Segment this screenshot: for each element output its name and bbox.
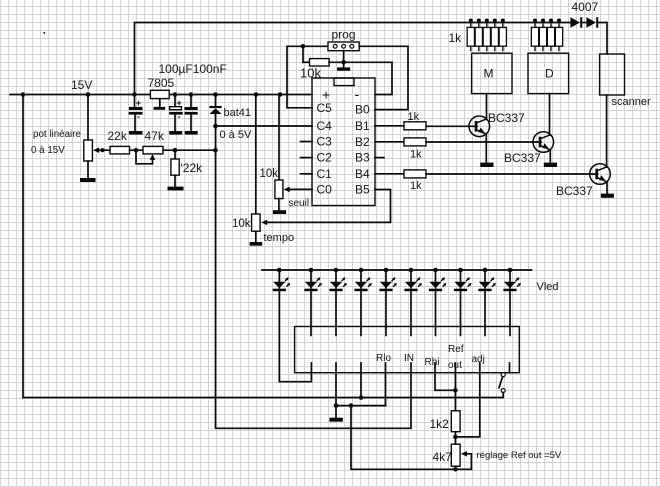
node wiper junction: [100, 148, 104, 152]
svg-text:0 à 5V: 0 à 5V: [220, 129, 252, 141]
IC notch: [334, 78, 354, 86]
LED 10: [503, 268, 521, 292]
wire prog middle pin: [343, 51, 345, 68]
module D: [528, 53, 569, 93]
wire LED3 pin: [335, 291, 337, 335]
svg-text:10k: 10k: [232, 218, 251, 230]
pin Rhi (to Ref out node): [435, 363, 455, 390]
svg-text:Rlo: Rlo: [376, 353, 391, 364]
potentiometer 10k seuil: [275, 180, 290, 199]
wire C5 to prog: [287, 46, 328, 108]
node pot linéaire top: [86, 92, 91, 97]
svg-text:B2: B2: [355, 135, 370, 149]
wire between diodes: [582, 22, 586, 24]
wire 47k to signal node: [163, 149, 216, 151]
wire ground bus: [336, 405, 386, 407]
svg-text:C1: C1: [317, 167, 333, 181]
pin stub C1: [301, 173, 313, 175]
wire minus pin to ground node: [375, 62, 392, 94]
svg-text:C0: C0: [317, 183, 333, 197]
transistor Q3 BC337: [590, 164, 611, 185]
pin V+ (to 15V feed): [360, 363, 362, 398]
pin V- (to ground): [335, 363, 337, 406]
wire seuil bottom lead: [278, 199, 280, 211]
svg-text:'22k: '22k: [181, 161, 204, 175]
wire LED4 pin: [360, 291, 362, 335]
svg-text:10k: 10k: [260, 168, 279, 180]
svg-text:C2: C2: [317, 151, 333, 165]
ground C1: [129, 131, 143, 135]
wire scanner to Q3 collector: [606, 95, 608, 167]
IC U1: [312, 78, 375, 206]
ground Q3: [601, 194, 614, 198]
svg-text:scanner: scanner: [612, 96, 651, 108]
LED 2: [304, 268, 322, 292]
svg-text:B5: B5: [355, 183, 370, 197]
wire 10k drop: [302, 46, 304, 62]
ground tempo: [250, 242, 263, 246]
pin stub C2: [301, 157, 313, 159]
wire 15V rail: [10, 94, 312, 96]
LED 8: [454, 268, 472, 292]
transistor Q1 BC337: [469, 116, 490, 137]
svg-text:-: -: [178, 112, 181, 122]
ground pot linéaire: [80, 178, 96, 182]
wire LED5 pin: [385, 291, 387, 335]
svg-text:réglage Ref out =5V: réglage Ref out =5V: [477, 450, 562, 461]
wire LED1 to pin 1: [279, 291, 311, 382]
node 22k vertical tap: [173, 148, 178, 153]
LED 1: [273, 268, 291, 292]
svg-text:B4: B4: [355, 167, 370, 181]
svg-text:1k: 1k: [410, 180, 422, 192]
resistor 22k: [110, 146, 130, 154]
node rail / left drop junction: [21, 92, 26, 97]
svg-text:4k7: 4k7: [433, 450, 453, 464]
node C3: [189, 92, 194, 97]
svg-text:0 à 15V: 0 à 15V: [31, 145, 65, 156]
resistor 1k (B2): [375, 138, 541, 146]
potentiometer 47k: [136, 146, 163, 163]
svg-text:pot linéaire: pot linéaire: [33, 129, 81, 140]
pin stub C3: [301, 141, 313, 143]
svg-text:prog: prog: [332, 28, 356, 42]
svg-text:B3: B3: [355, 151, 370, 165]
node C2: [173, 92, 178, 97]
wire LED supply top rail: [135, 23, 571, 95]
wire Q2 emitter: [549, 150, 551, 163]
pin Rlo: [385, 363, 387, 406]
potentiometer 4k7: [451, 444, 471, 469]
node seuil supply: [278, 92, 283, 97]
wire M to Q1 collector: [486, 94, 488, 120]
svg-text:Ref: Ref: [448, 344, 464, 355]
wire signal trunk (bat41 down, to LM3914 IN pin): [216, 114, 412, 428]
resistor 1k2: [451, 411, 460, 432]
node top-wire riser / C1: [132, 92, 137, 97]
ground prog: [337, 67, 350, 70]
wire C4 sense line: [216, 125, 313, 127]
capacitor C2 100µF: [169, 95, 183, 132]
svg-text:IN: IN: [404, 353, 414, 364]
regulator 7805: [150, 90, 169, 110]
pin Ref out: [454, 363, 456, 411]
svg-text:+: +: [136, 98, 141, 108]
diode D2 4007: [586, 17, 598, 28]
node 0 à 5V: [213, 124, 218, 129]
module scanner: [600, 54, 625, 95]
svg-text:B1: B1: [355, 119, 370, 133]
svg-text:C4: C4: [317, 119, 333, 133]
node Rhi/RefOut junction: [453, 388, 458, 393]
potentiometer 10k tempo: [252, 214, 268, 231]
module LM3914: [295, 327, 520, 373]
svg-text:1k: 1k: [410, 149, 422, 161]
svg-text:4007: 4007: [572, 0, 599, 14]
wire pot bottom lead: [87, 161, 89, 178]
LED 5: [379, 268, 397, 292]
wire LED9 pin: [484, 291, 486, 335]
capacitor C1 100µF: [129, 95, 143, 132]
svg-text:Rhi: Rhi: [425, 357, 440, 368]
svg-text:BC337: BC337: [556, 184, 593, 198]
node V+ junction on feed: [359, 395, 364, 400]
wire seuil wiper to C0: [289, 188, 312, 190]
wire Q1 emitter: [485, 134, 487, 162]
svg-text:Vled: Vled: [537, 281, 559, 293]
wire Q3 emitter: [606, 182, 608, 194]
wire LED7 pin: [435, 291, 437, 335]
wire 22k to 47k: [130, 149, 144, 151]
LED 4: [354, 268, 372, 292]
ground C3: [185, 131, 198, 135]
svg-text:15V: 15V: [71, 78, 92, 92]
svg-text:47k: 47k: [145, 129, 165, 143]
svg-text:7805: 7805: [148, 76, 175, 90]
svg-text:BC337: BC337: [488, 111, 525, 125]
svg-text:C3: C3: [317, 135, 333, 149]
node 4k7 bottom junction: [453, 467, 458, 472]
ground 22k vertical: [168, 187, 184, 191]
svg-text:1k2: 1k2: [430, 417, 450, 431]
LED 3: [329, 268, 347, 292]
svg-text:-: -: [137, 112, 140, 122]
wire LED10 pin: [509, 291, 511, 335]
resistor 10k prog: [303, 59, 392, 66]
svg-text:bat41: bat41: [224, 107, 252, 119]
wire 1k2 to 4k7: [454, 432, 456, 445]
wire bottom +15V feed: [23, 397, 503, 399]
LED 7: [429, 268, 447, 292]
pin stub B3: [375, 157, 384, 159]
wire Vled: [262, 269, 531, 271]
wire tempo supply drop: [255, 95, 257, 215]
potentiometer pot linéaire: [84, 140, 99, 161]
wire tempo bottom lead: [255, 231, 257, 242]
wire seuil supply drop: [278, 95, 280, 181]
ground C2: [169, 131, 182, 135]
pin mode stub: [509, 363, 511, 373]
svg-text:100µF100nF: 100µF100nF: [159, 62, 227, 76]
resistor network 1k group M (5 resistors): [467, 19, 506, 52]
wire diodes to scanner: [598, 23, 607, 55]
wire bus to bottom return: [351, 406, 471, 470]
switch mode: [499, 373, 505, 398]
svg-text:22k: 22k: [108, 129, 128, 143]
wire pot linéaire top lead: [87, 95, 89, 141]
svg-text:D: D: [545, 67, 554, 81]
node bat41 top: [213, 92, 218, 97]
ground LM3914: [329, 418, 342, 422]
diode D1 4007: [570, 17, 582, 28]
svg-text:+: +: [177, 98, 182, 108]
wire prog right pin to B0: [359, 46, 408, 109]
pin adj: [455, 363, 479, 437]
transistor Q2 BC337: [533, 132, 554, 153]
connector prog: [328, 42, 359, 51]
wire LED8 pin: [460, 291, 462, 335]
resistor 1k (B1): [375, 122, 477, 130]
ground Q1: [480, 163, 493, 167]
svg-text:1k: 1k: [408, 111, 420, 123]
svg-text:adj: adj: [472, 354, 485, 365]
stray mark: [44, 32, 46, 34]
node prog/10k junction: [301, 44, 306, 49]
wire wiper to 22k: [99, 149, 111, 151]
svg-text:-: -: [355, 86, 360, 102]
wire left drop (15V to bottom feed): [22, 95, 24, 398]
node ground bus left: [334, 403, 339, 408]
LED 6: [404, 268, 422, 292]
resistor network 1k group D (4 resistors): [531, 19, 562, 52]
svg-text:BC337: BC337: [504, 151, 541, 165]
resistor 22k vertical: [171, 150, 179, 186]
svg-text:C5: C5: [317, 101, 333, 115]
svg-text:tempo: tempo: [264, 232, 295, 244]
svg-text:1k: 1k: [449, 31, 463, 45]
node 47k wiper return: [134, 148, 139, 153]
node 1k2/4k7/adj junction: [453, 435, 458, 440]
wire V- to ground: [335, 406, 337, 418]
wire LED6 pin: [410, 291, 412, 335]
svg-text:seuil: seuil: [289, 198, 310, 209]
wire D to Q2 collector: [549, 94, 551, 135]
svg-text:M: M: [484, 67, 494, 81]
ground Q2: [544, 163, 557, 167]
wire B5 to tempo wiper: [267, 190, 391, 223]
resistor 1k (B4): [375, 170, 598, 178]
node signal (47k / bat41 branch): [213, 148, 218, 153]
node ground bus drop: [349, 403, 354, 408]
diode bat41: [209, 95, 221, 115]
capacitor C3 100nF: [185, 95, 198, 132]
svg-text:B0: B0: [355, 103, 370, 117]
wire LED2 pin: [310, 291, 312, 335]
node tempo supply: [254, 92, 259, 97]
module M: [472, 53, 512, 93]
ground seuil: [273, 210, 286, 214]
node prog ground junction: [341, 60, 346, 65]
LED 9: [478, 268, 496, 292]
